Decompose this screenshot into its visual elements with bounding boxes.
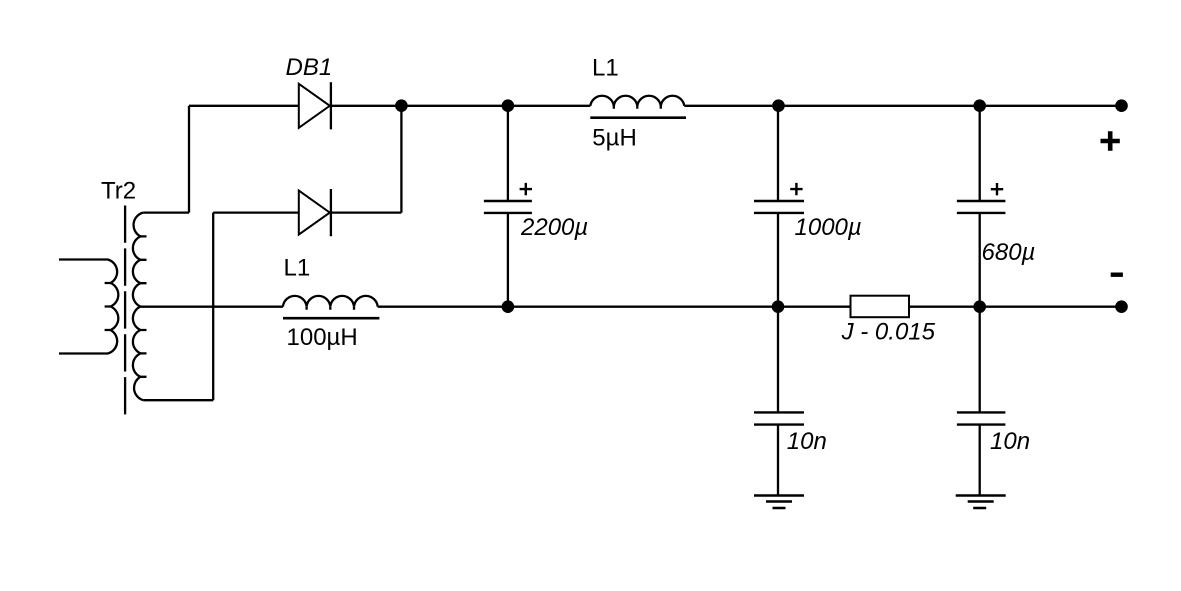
node - terminal [1115,300,1128,313]
plus mark 1000u [790,183,802,195]
capacitor 10n left: plates [754,412,804,424]
transformer Tr2 primary cusp ticks [105,283,111,330]
node 680u top [973,99,986,112]
plus mark 2200u [520,183,532,195]
wire: secondary top lead [143,211,189,213]
diode DB1 bottom: cathode bar [330,189,332,236]
inductor L1 5uH underline [590,116,686,119]
wire top rail: L1 to + terminal [684,105,1121,107]
svg-text:2200µ: 2200µ [520,214,588,241]
svg-text:L1: L1 [284,255,311,282]
svg-text:100µH: 100µH [287,324,358,351]
wire top rail: diode1 anode segment [189,105,299,107]
node 680u bottom [973,300,986,313]
wire: diode2 cathode to vertical [331,211,402,213]
capacitor 1000u: bottom lead [777,213,779,307]
wire bottom rail: 100uH to - terminal [378,306,1122,308]
node diode2 junction top [395,99,408,112]
svg-text:J - 0.015: J - 0.015 [841,318,936,345]
wire: vertical secondary bottom to diode2 row [212,213,214,401]
svg-text:L1: L1 [592,54,619,81]
inductor L1 5uH cusp ticks [614,106,661,109]
inductor L1 100uH cusp ticks [307,307,354,310]
capacitor 10n right: bottom lead [979,425,981,496]
diode DB1 bottom: triangle [299,191,330,235]
svg-text:10n: 10n [787,428,827,455]
transformer Tr2 core [124,206,126,416]
svg-text:Tr2: Tr2 [101,178,136,205]
node 1000u bottom [772,300,785,313]
capacitor 10n right: plates [957,412,1006,424]
capacitor 1000u: plates [754,201,804,213]
transformer Tr2 secondary winding [133,213,143,401]
plus terminal symbol [1101,131,1120,151]
capacitor 2200u: bottom lead [507,213,509,307]
wire: diode2 anode segment [213,211,299,213]
capacitor 680u: bottom lead [979,213,981,307]
diode DB1 top: cathode bar [330,82,332,129]
transformer Tr2 secondary cusp ticks [141,236,147,376]
node dots [395,99,1128,313]
wire: vertical diode2 to top rail [400,106,402,213]
capacitor 1000u: top lead [777,106,779,201]
inductor L1 5uH bumps [590,96,684,106]
resistor J shunt body [851,296,910,318]
node + terminal [1115,99,1128,112]
capacitor 10n left: top lead [777,307,779,413]
svg-text:680µ: 680µ [982,239,1036,266]
svg-text:1000µ: 1000µ [795,214,862,241]
ground left [754,496,804,509]
capacitor 2200u: top lead [507,106,509,201]
wire: secondary bottom lead [143,399,213,401]
node 2200u bottom [502,300,515,313]
transformer Tr2 primary winding [59,260,118,354]
diode DB1 top: triangle [299,84,330,128]
capacitor 10n left: bottom lead [777,425,779,496]
wire top rail: diode1 cathode to L1 [331,105,590,107]
capacitor 680u: plates [957,201,1006,213]
capacitor 2200u: plates [484,201,532,213]
node 1000u top [772,99,785,112]
wire bottom rail: center tap to 100uH [141,306,283,308]
minus terminal symbol [1111,273,1123,277]
node 2200u top [502,99,515,112]
ground right [956,496,1006,509]
svg-text:DB1: DB1 [286,54,333,81]
svg-text:5µH: 5µH [592,124,637,151]
inductor L1 100uH underline [283,317,379,320]
inductor L1 100uH bumps [283,296,378,307]
capacitor 680u: top lead [979,106,981,201]
svg-text:10n: 10n [990,428,1030,455]
plus mark 680u [991,183,1003,195]
capacitor 10n right: top lead [979,307,981,413]
wire: vertical from secondary top to diode1 row [188,106,190,213]
